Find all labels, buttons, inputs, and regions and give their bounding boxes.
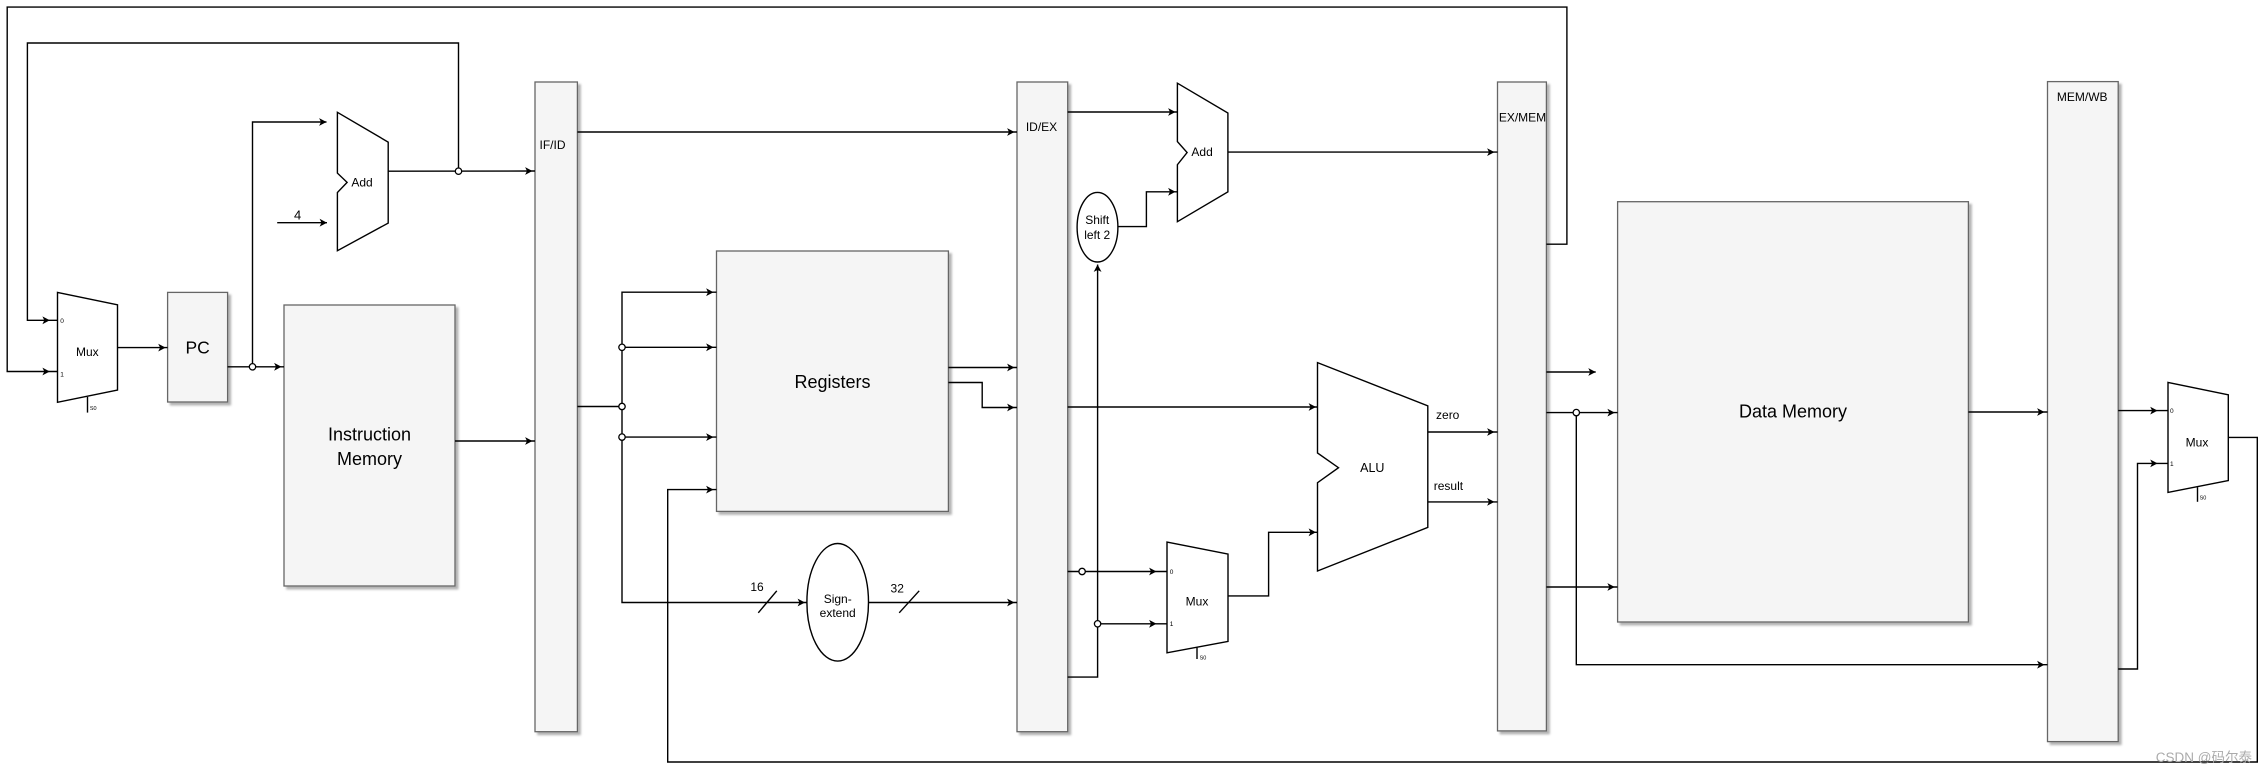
wire Mux2 output to ALU — [1228, 532, 1318, 596]
mux Mux1 PC source — [58, 292, 118, 402]
svg-text:0: 0 — [60, 318, 64, 325]
svg-text:Data Memory: Data Memory — [1739, 402, 1847, 422]
svg-text:Add: Add — [1191, 145, 1212, 159]
wire ALU result bypass down to MEM/WB — [1576, 413, 2047, 665]
node ALU result junction — [1573, 409, 1579, 415]
wire Mux1 output to PC — [118, 347, 168, 349]
svg-text:Memory: Memory — [337, 449, 402, 469]
svg-text:Mux: Mux — [76, 345, 99, 359]
wire MEM/WB ALU result to Mux3 input 1 — [2118, 463, 2168, 669]
node bus junction read register 2 — [619, 344, 625, 350]
svg-text:Registers: Registers — [794, 372, 870, 392]
instruction memory box — [284, 305, 455, 586]
adder Add2 branch target — [1177, 83, 1228, 222]
svg-text:MEM/WB: MEM/WB — [2057, 90, 2108, 104]
mux Mux3 write back — [2168, 382, 2228, 492]
svg-text:0: 0 — [2170, 408, 2174, 415]
svg-text:32: 32 — [891, 581, 905, 595]
register PC box — [168, 292, 228, 402]
wire sign-extend output to ID/EX — [869, 602, 1018, 604]
wire ID/EX PC+4 to Add2 — [1068, 111, 1178, 113]
wire ID/EX read data 2 to Mux2 input 0 — [1068, 571, 1167, 573]
adder Add1 — [337, 112, 388, 250]
wire ID/EX read data 1 to ALU — [1068, 406, 1318, 408]
svg-text:Sign-: Sign- — [824, 592, 852, 606]
svg-text:zero: zero — [1436, 408, 1460, 422]
slash 16-bit width mark — [758, 591, 777, 613]
wire constant 4 into Add1 — [277, 222, 327, 224]
pipeline register IF/ID — [535, 82, 577, 732]
alu ALU — [1318, 363, 1428, 571]
svg-text:Add: Add — [351, 176, 372, 190]
node PC output junction — [249, 364, 255, 370]
mux Mux2 select stem S0 — [1196, 648, 1198, 659]
wire ALU result output to EX/MEM — [1428, 501, 1498, 503]
wire Add2 output to EX/MEM — [1228, 151, 1498, 153]
pipeline register ID/EX — [1017, 82, 1068, 732]
svg-text:EX/MEM: EX/MEM — [1499, 111, 1546, 125]
node PC+4 junction — [455, 168, 461, 174]
wire PC output to Instruction Memory — [228, 366, 284, 368]
slash 32-bit width mark — [899, 591, 919, 613]
wire write back Mux3 output to Registers write data — [668, 437, 2258, 762]
svg-text:1: 1 — [2170, 461, 2174, 468]
svg-text:1: 1 — [60, 372, 64, 379]
svg-text:16: 16 — [750, 580, 764, 594]
pipeline register EX/MEM — [1498, 82, 1547, 731]
node bus junction instruction in — [619, 403, 625, 409]
svg-text:S0: S0 — [90, 406, 97, 412]
pipeline register MEM/WB — [2048, 82, 2119, 742]
svg-text:extend: extend — [820, 606, 856, 620]
node immediate junction — [1094, 621, 1100, 627]
svg-text:4: 4 — [294, 207, 301, 222]
node read data 2 junction — [1079, 568, 1085, 574]
wire EX/MEM ALU result to Data Memory address — [1546, 412, 1617, 414]
svg-text:S0: S0 — [2200, 496, 2207, 502]
svg-text:S0: S0 — [1200, 656, 1207, 662]
wire IF/ID instruction to bus — [577, 406, 622, 408]
svg-text:ALU: ALU — [1360, 461, 1384, 475]
wire MEM/WB read data to Mux3 input 0 — [2118, 410, 2168, 412]
svg-text:1: 1 — [1170, 621, 1174, 628]
wire immediate branch to Mux2 input 1 — [1098, 623, 1167, 625]
wire branch-feedback EX/MEM to Mux1 input 1 — [7, 7, 1567, 371]
mux Mux1 select stem S0 — [87, 397, 89, 413]
node bus junction write register — [619, 434, 625, 440]
sign-extend ellipse — [807, 544, 869, 662]
wire EX/MEM write data to Data Memory — [1546, 586, 1617, 588]
wire bus branch to write register — [622, 436, 717, 438]
mux Mux3 select stem S0 — [2197, 487, 2199, 502]
svg-text:CSDN @码尔泰: CSDN @码尔泰 — [2156, 750, 2253, 765]
wire IF/ID PC+4 to ID/EX — [577, 131, 1017, 133]
svg-text:ID/EX: ID/EX — [1026, 120, 1057, 134]
wire bus branch to read register 2 — [622, 346, 717, 348]
svg-text:Mux: Mux — [1186, 594, 1209, 608]
svg-text:Instruction: Instruction — [328, 424, 411, 444]
wire ALU zero output to EX/MEM — [1428, 431, 1498, 433]
svg-text:result: result — [1434, 479, 1464, 493]
wire Instruction Memory output to IF/ID — [455, 440, 535, 442]
svg-text:IF/ID: IF/ID — [540, 138, 566, 152]
wire registers read data 2 to ID/EX — [948, 383, 1017, 408]
wire instruction bus vertical with sign-extend branch — [622, 292, 807, 602]
shift left 2 ellipse — [1077, 192, 1118, 262]
wire shift left 2 output to Add2 — [1118, 192, 1178, 227]
wire PC output branch up to Add1 — [253, 122, 327, 367]
svg-text:0: 0 — [1170, 569, 1174, 576]
wire ID/EX immediate up to shift left 2 — [1068, 265, 1098, 678]
wire EX/MEM dangling arrow toward Data Memory — [1546, 371, 1595, 373]
wire registers read data 1 to ID/EX — [948, 367, 1017, 369]
svg-text:Mux: Mux — [2186, 436, 2209, 450]
svg-text:left 2: left 2 — [1084, 228, 1110, 242]
mux Mux2 ALU source — [1167, 542, 1228, 653]
wire Add1 output to IF/ID — [388, 170, 535, 172]
wire branch PC+4 to Mux1 input 0 — [27, 43, 458, 320]
svg-text:PC: PC — [185, 338, 209, 358]
registers box — [717, 251, 949, 511]
wire Data Memory read data to MEM/WB — [1968, 411, 2047, 413]
svg-text:Shift: Shift — [1085, 213, 1110, 227]
data memory box — [1618, 202, 1969, 622]
